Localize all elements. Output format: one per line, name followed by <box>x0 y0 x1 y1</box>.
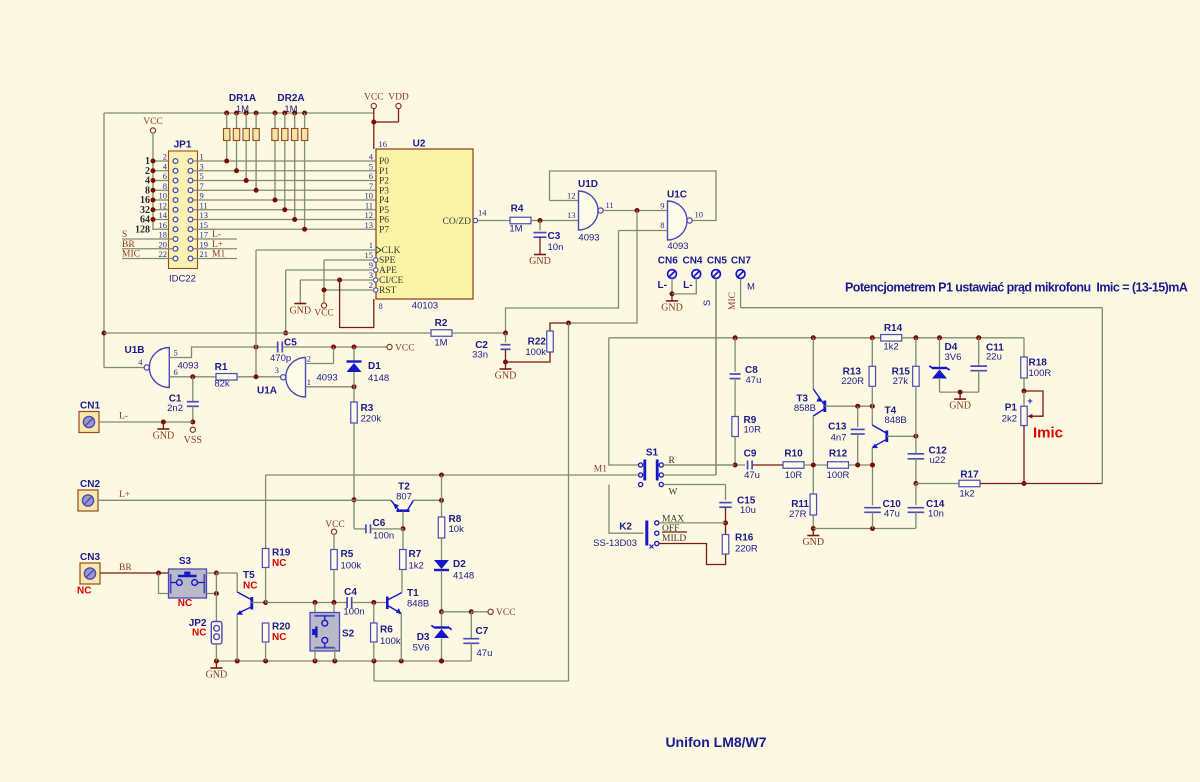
svg-text:R20: R20 <box>272 622 291 633</box>
wire <box>207 593 217 595</box>
wire <box>216 660 471 662</box>
wire <box>193 219 376 221</box>
svg-text:GND: GND <box>153 431 175 442</box>
svg-text:807: 807 <box>396 492 412 503</box>
svg-text:MILD: MILD <box>662 534 686 544</box>
wire <box>915 459 917 484</box>
wire <box>245 141 247 181</box>
resistor R1 <box>216 374 237 381</box>
junction <box>870 526 875 531</box>
wire <box>266 602 347 604</box>
wire <box>872 440 885 448</box>
wire <box>256 249 376 251</box>
wire <box>333 534 335 549</box>
wire <box>734 379 736 417</box>
wire <box>236 573 238 592</box>
wire <box>285 270 287 333</box>
resistor R3 <box>351 402 358 423</box>
svg-text:3V6: 3V6 <box>945 352 962 363</box>
svg-text:R1: R1 <box>215 362 228 373</box>
svg-text:47u: 47u <box>884 509 900 520</box>
svg-text:CN7: CN7 <box>731 256 751 267</box>
svg-text:17: 17 <box>200 230 209 240</box>
capacitor C2 <box>501 344 511 346</box>
svg-text:L-: L- <box>212 230 221 240</box>
resistor network element DR2A <box>301 129 307 141</box>
wire <box>300 279 373 281</box>
wire <box>506 231 619 334</box>
nand gate U1C <box>668 201 688 240</box>
wire <box>505 362 507 369</box>
svg-text:R17: R17 <box>960 470 979 481</box>
junction <box>538 218 543 223</box>
svg-text:GND: GND <box>661 302 683 313</box>
wire <box>215 573 217 594</box>
wire <box>505 333 507 342</box>
wire <box>389 606 402 614</box>
svg-text:220k: 220k <box>361 414 382 425</box>
svg-text:3: 3 <box>369 270 373 280</box>
wire <box>193 228 376 230</box>
wire <box>373 661 375 681</box>
wire <box>284 141 286 210</box>
wire <box>215 594 217 622</box>
wire <box>734 437 736 466</box>
svg-text:R12: R12 <box>829 449 848 460</box>
svg-text:APE: APE <box>379 266 397 276</box>
jumper JP2 <box>211 622 222 644</box>
svg-text:NC: NC <box>77 586 91 597</box>
wire <box>1023 338 1025 357</box>
resistor R11 <box>810 494 817 515</box>
wire <box>506 352 551 362</box>
wire <box>1023 426 1025 484</box>
junction <box>371 120 376 125</box>
junction <box>670 291 675 296</box>
wire <box>740 278 742 307</box>
junction <box>151 207 156 212</box>
svg-text:4n7: 4n7 <box>831 433 847 444</box>
wire <box>664 464 746 466</box>
svg-text:VCC: VCC <box>143 117 163 127</box>
ground <box>534 254 546 256</box>
svg-text:R4: R4 <box>511 204 524 215</box>
junction <box>254 345 259 350</box>
junction <box>352 497 357 502</box>
svg-text:13: 13 <box>200 210 209 220</box>
wire <box>959 392 961 399</box>
wire <box>153 199 173 201</box>
wire <box>122 248 173 250</box>
wire <box>441 475 443 500</box>
wire <box>663 474 716 476</box>
svg-text:220R: 220R <box>735 544 758 555</box>
wire <box>371 528 403 530</box>
svg-text:GND: GND <box>495 371 517 382</box>
wire <box>334 648 336 661</box>
svg-text:M: M <box>747 282 755 293</box>
wire <box>353 387 355 402</box>
svg-text:C7: C7 <box>476 626 489 637</box>
wire <box>306 363 334 365</box>
svg-text:2: 2 <box>369 280 373 290</box>
wire <box>294 141 296 220</box>
wire <box>153 189 173 191</box>
potentiometer P1 wiper arrow <box>1027 414 1032 419</box>
svg-text:R22: R22 <box>528 337 547 348</box>
svg-text:T5: T5 <box>243 570 255 581</box>
power terminal VCC <box>371 103 376 108</box>
wire <box>153 219 173 221</box>
junction <box>870 335 875 340</box>
svg-text:13: 13 <box>365 220 374 230</box>
resistor R20 <box>262 623 269 642</box>
wire <box>441 612 443 627</box>
wire <box>725 523 727 535</box>
wire <box>619 230 668 232</box>
wire <box>255 250 257 347</box>
junction <box>156 571 161 576</box>
svg-text:1M: 1M <box>509 224 522 235</box>
wire <box>391 500 399 510</box>
svg-text:T1: T1 <box>407 588 419 599</box>
capacitor C8 <box>730 373 741 375</box>
svg-text:82k: 82k <box>214 379 230 390</box>
wire <box>193 209 376 211</box>
wire <box>531 220 579 222</box>
wire <box>915 386 917 436</box>
wire <box>324 259 374 261</box>
svg-text:1k2: 1k2 <box>409 561 424 572</box>
connector CN5 <box>712 270 721 279</box>
junction <box>234 111 239 116</box>
svg-text:U1A: U1A <box>257 386 277 397</box>
svg-text:12: 12 <box>365 210 374 220</box>
wire <box>207 572 217 574</box>
svg-text:CN4: CN4 <box>682 256 702 267</box>
svg-text:5: 5 <box>174 348 178 358</box>
wire <box>1024 391 1043 416</box>
pin CO/ZD bubble <box>473 218 477 222</box>
wire <box>294 113 296 129</box>
wire <box>539 237 541 254</box>
wire <box>1023 391 1025 406</box>
wire <box>609 338 639 465</box>
wire <box>153 209 173 211</box>
svg-text:40103: 40103 <box>412 301 438 312</box>
svg-text:14: 14 <box>159 210 168 220</box>
wire <box>122 258 173 260</box>
junction <box>870 463 875 468</box>
junction <box>855 404 860 409</box>
svg-text:20: 20 <box>159 239 168 249</box>
wire <box>374 680 569 682</box>
resistor R8 <box>438 517 445 538</box>
wire <box>193 258 237 260</box>
junction <box>811 335 816 340</box>
capacitor C1 <box>187 401 199 403</box>
pin bubble <box>374 288 378 292</box>
transistor T3 <box>823 401 826 413</box>
svg-text:C13: C13 <box>828 422 847 433</box>
terminal VSS <box>190 427 195 432</box>
junction <box>282 111 287 116</box>
wire <box>813 389 823 404</box>
svg-text:1: 1 <box>369 240 373 250</box>
wire <box>374 121 399 123</box>
wire <box>441 639 443 662</box>
svg-text:1M: 1M <box>434 338 447 349</box>
wire <box>659 544 726 565</box>
capacitor C13 <box>851 428 865 430</box>
wire <box>401 570 403 593</box>
resistor network element DR1A <box>253 129 259 141</box>
wire <box>236 614 238 661</box>
junction <box>151 159 156 164</box>
junction <box>254 111 259 116</box>
svg-text:R10: R10 <box>784 449 803 460</box>
resistor R17 <box>959 480 980 487</box>
wire <box>352 602 386 604</box>
zener diode D3 <box>434 626 449 628</box>
svg-text:9: 9 <box>369 260 373 270</box>
junction <box>439 609 444 614</box>
wire <box>734 338 736 372</box>
svg-text:848B: 848B <box>885 415 907 426</box>
junction <box>439 498 444 503</box>
svg-text:CLK: CLK <box>382 246 401 256</box>
power terminal VCC <box>150 128 155 133</box>
svg-text:100k: 100k <box>380 636 401 647</box>
wire <box>659 522 726 524</box>
resistor R18 <box>1021 357 1028 378</box>
connector CN1 <box>79 412 99 433</box>
svg-text:GND: GND <box>206 670 228 681</box>
wire <box>663 484 725 486</box>
junction <box>439 473 444 478</box>
junction <box>214 571 219 576</box>
junction <box>283 331 288 336</box>
wire <box>871 447 873 465</box>
connector CN4 <box>692 270 701 279</box>
wire <box>715 278 717 475</box>
wire <box>915 484 917 506</box>
pin bubble <box>374 268 378 272</box>
junction <box>870 404 875 409</box>
power terminal VCC <box>387 344 392 349</box>
junction <box>976 335 981 340</box>
svg-text:DR1A: DR1A <box>229 93 256 104</box>
wire <box>193 248 237 250</box>
svg-text:220R: 220R <box>841 376 864 387</box>
junction <box>161 420 166 425</box>
capacitor C15 <box>719 502 731 504</box>
svg-text:VDD: VDD <box>388 93 409 103</box>
wire <box>237 607 250 614</box>
wire <box>663 464 735 466</box>
wire <box>255 141 257 191</box>
svg-text:W: W <box>669 488 678 498</box>
svg-text:P1: P1 <box>379 167 389 177</box>
svg-text:M1: M1 <box>212 250 225 260</box>
svg-text:VCC: VCC <box>325 520 345 530</box>
svg-text:128: 128 <box>135 224 150 235</box>
wire <box>274 113 276 129</box>
wire <box>609 337 881 339</box>
svg-text:GND: GND <box>529 256 551 267</box>
svg-text:NC: NC <box>272 632 286 643</box>
svg-text:S: S <box>702 300 713 306</box>
wire <box>226 141 228 162</box>
wire <box>569 211 638 324</box>
wire <box>333 603 335 616</box>
svg-text:Unifon LM8/W7: Unifon LM8/W7 <box>665 734 766 750</box>
wire <box>671 294 673 301</box>
wire <box>215 661 217 668</box>
wire <box>939 379 941 392</box>
power terminal VCC <box>488 609 493 614</box>
junction <box>352 384 357 389</box>
svg-text:5: 5 <box>369 161 373 171</box>
svg-text:BR: BR <box>122 240 135 250</box>
svg-text:MIC: MIC <box>122 250 140 260</box>
svg-text:L+: L+ <box>119 490 130 500</box>
junction <box>313 659 318 664</box>
wire <box>265 568 267 603</box>
resistor R10 <box>783 462 804 469</box>
svg-text:100k: 100k <box>341 561 362 572</box>
svg-text:4148: 4148 <box>368 373 389 384</box>
svg-text:12: 12 <box>567 191 576 201</box>
wire <box>442 611 472 613</box>
wire <box>169 376 216 378</box>
wire <box>226 113 228 129</box>
wire <box>265 642 267 661</box>
wire <box>283 346 387 348</box>
wire <box>981 483 1103 485</box>
svg-text:10R: 10R <box>744 425 762 436</box>
diode D2 <box>434 560 449 569</box>
svg-text:GND: GND <box>289 306 311 317</box>
switch K2 <box>645 521 648 546</box>
svg-text:P2: P2 <box>379 177 389 187</box>
wire <box>725 485 727 501</box>
junction <box>282 207 287 212</box>
svg-text:18: 18 <box>159 230 168 240</box>
power terminal VDD <box>396 103 401 108</box>
ground <box>294 303 306 305</box>
svg-text:33n: 33n <box>472 350 488 361</box>
junction <box>302 111 307 116</box>
svg-text:47u: 47u <box>746 375 762 386</box>
junction <box>1022 389 1027 394</box>
svg-text:47u: 47u <box>744 470 760 481</box>
svg-text:8: 8 <box>163 181 167 191</box>
svg-text:VCC: VCC <box>496 608 516 618</box>
wire <box>237 592 250 599</box>
resistor R14 <box>881 335 902 342</box>
transistor T1 <box>386 597 389 610</box>
svg-text:10R: 10R <box>785 470 803 481</box>
connector CN3 <box>80 563 100 584</box>
pushbutton S3 <box>169 569 207 598</box>
wire <box>274 141 276 201</box>
wire <box>505 349 507 362</box>
wire <box>100 572 169 574</box>
svg-text:858B: 858B <box>794 403 816 414</box>
wire <box>314 603 316 615</box>
connector CN6 <box>668 270 677 279</box>
wire <box>871 406 873 425</box>
svg-text:2: 2 <box>307 354 311 364</box>
svg-text:Imic: Imic <box>1033 425 1063 442</box>
svg-text:1k2: 1k2 <box>959 489 974 500</box>
svg-text:6: 6 <box>369 171 373 181</box>
svg-text:VCC: VCC <box>314 309 334 319</box>
svg-text:R18: R18 <box>1029 358 1048 369</box>
wire <box>192 377 194 402</box>
wire <box>812 515 814 529</box>
capacitor C11 <box>970 365 987 367</box>
svg-text:IDC22: IDC22 <box>169 274 196 285</box>
junction <box>190 374 195 379</box>
switch K2 X mark <box>650 545 654 549</box>
wire <box>236 141 238 171</box>
junction <box>733 463 738 468</box>
svg-text:P4: P4 <box>379 196 389 206</box>
capacitor C7 <box>463 638 479 640</box>
wire <box>192 406 194 422</box>
wire <box>414 499 442 501</box>
nand gate U1A <box>286 358 306 398</box>
wire <box>324 289 374 291</box>
wire <box>550 171 717 221</box>
nand gate U1B <box>149 348 169 388</box>
potentiometer P1 <box>1021 406 1027 425</box>
svg-text:S: S <box>122 230 127 240</box>
wire <box>753 464 784 466</box>
svg-text:MIC: MIC <box>728 292 738 310</box>
wire <box>441 571 443 612</box>
capacitor C12 <box>908 453 925 455</box>
resistor R6 <box>371 623 378 642</box>
svg-text:L-: L- <box>658 280 667 291</box>
svg-text:P3: P3 <box>379 186 389 196</box>
resistor R9 <box>732 417 739 437</box>
svg-text:u22: u22 <box>930 455 946 466</box>
junction <box>254 374 259 379</box>
svg-text:VCC: VCC <box>395 344 415 354</box>
resistor R12 <box>828 462 849 469</box>
svg-text:NC: NC <box>192 628 206 639</box>
wire <box>550 323 569 331</box>
svg-text:10k: 10k <box>449 524 465 535</box>
transistor T5 <box>250 597 253 610</box>
svg-text:8: 8 <box>660 220 664 230</box>
svg-text:10n: 10n <box>928 509 944 520</box>
svg-text:10: 10 <box>159 191 168 201</box>
junction <box>224 159 229 164</box>
wire <box>1023 378 1025 391</box>
svg-text:CN2: CN2 <box>80 479 100 490</box>
svg-text:16: 16 <box>379 139 388 149</box>
svg-text:11: 11 <box>365 200 373 210</box>
svg-text:SS-13D03: SS-13D03 <box>593 538 637 549</box>
wire <box>314 648 316 661</box>
resistor R19 <box>262 549 269 568</box>
junction <box>292 111 297 116</box>
svg-text:3: 3 <box>275 365 279 375</box>
